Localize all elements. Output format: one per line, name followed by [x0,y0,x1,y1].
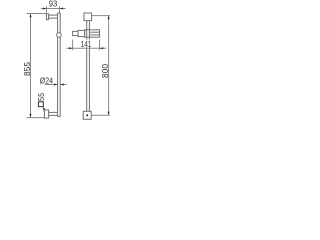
dimension 93 extension line left [46,6,48,14]
dimension 800 extension line top [92,15,110,17]
front view top square escutcheon [84,13,92,21]
dimension 141 extension line right [99,40,101,51]
front view slider holder cone end [73,31,78,35]
dimension 141 arrow left [69,47,73,49]
side view top bracket wall plate [46,14,48,20]
svg-text:800: 800 [100,64,110,78]
dimension O24 arrow line left [45,84,58,86]
dimension 93 arrow left [43,8,47,10]
dimension 800 arrow up [108,16,110,20]
side view bottom bracket arm [49,111,58,113]
svg-text:141: 141 [81,40,92,49]
dimension 800 arrow down [108,112,110,116]
label square 55 leader [43,107,45,109]
dimension 141 arrow right [100,47,104,49]
dimension 855 extension line bottom [27,117,45,119]
front view bottom square escutcheon [83,111,91,119]
svg-text:93: 93 [49,0,58,9]
svg-text:55: 55 [36,93,46,101]
dimension 93 dim line [41,8,66,10]
dimension 800 dim line [108,16,110,116]
dimension 855 extension line top [27,13,47,15]
dimension 855 arrow down [30,114,32,118]
side view slider knob circle [57,33,62,38]
side view top bracket arm [49,14,58,16]
front view slider holder cone body [78,30,85,36]
dimension 141 label background [80,40,93,48]
front view slider grip lines [89,31,99,33]
svg-text:855: 855 [22,62,32,76]
dimension 93 arrow right [60,8,64,10]
dimension 93 extension line right [59,6,61,13]
front view bottom square screw dot [86,114,88,116]
side view bottom bracket wall plate [44,110,48,118]
dimension O24 arrow line right [60,84,66,86]
front view slider body [85,30,100,37]
dimension 855 arrow up [30,14,32,18]
dimension 141 extension line left [72,40,74,51]
front view rail [86,21,88,112]
label square 55 symbol [38,102,43,107]
side view rail [57,13,59,117]
dimension 141 dim line [66,47,106,49]
dimension 800 extension line bottom [91,114,110,116]
dimension 855 dim line [30,14,32,118]
